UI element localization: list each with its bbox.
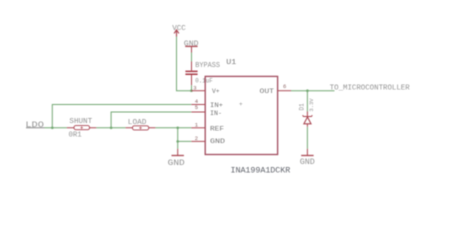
node V+ junction <box>190 89 193 92</box>
svg-text:LDO: LDO <box>25 121 44 130</box>
op-amp U1 INA199A1DCKR body <box>205 59 290 175</box>
wire OUT net <box>291 90 335 92</box>
ground middle <box>168 149 185 168</box>
svg-text:D1: D1 <box>299 103 306 111</box>
svg-text:3: 3 <box>193 84 196 91</box>
svg-text:GND: GND <box>168 158 185 168</box>
wire LDO to shunt <box>45 127 67 129</box>
ground right <box>300 149 315 167</box>
junction IN- <box>110 127 113 130</box>
wire IN+ net <box>52 105 191 128</box>
svg-text:IN+: IN+ <box>210 102 223 109</box>
wire diode to gnd <box>306 127 308 149</box>
junction gnd drop <box>176 127 179 130</box>
svg-text:5: 5 <box>195 104 198 111</box>
pin 5 IN- <box>191 104 222 117</box>
svg-text:3.3V: 3.3V <box>308 98 315 112</box>
node LDO label <box>25 121 44 130</box>
wire cap to V+ node <box>191 85 193 90</box>
diode D1 zener 3.3V <box>299 98 316 127</box>
ground top (flipped) <box>184 40 199 52</box>
resistor R LOAD <box>126 119 156 130</box>
svg-text:U1: U1 <box>226 59 237 67</box>
svg-text:2: 2 <box>195 135 198 142</box>
svg-text:6: 6 <box>283 83 286 90</box>
pin 2 GND <box>191 135 225 145</box>
wire gnd-to-cap <box>191 53 193 62</box>
svg-text:REF: REF <box>210 125 224 132</box>
wire branch to pin2 GND <box>178 140 192 142</box>
svg-text:0.1uF: 0.1uF <box>195 77 213 84</box>
capacitor C (BYPASS 0.1uF) <box>185 62 220 86</box>
svg-text:LOAD: LOAD <box>128 119 147 127</box>
pin 1 REF <box>191 122 224 133</box>
svg-text:INA199A1DCKR: INA199A1DCKR <box>231 165 291 175</box>
wire shunt to load <box>96 127 125 129</box>
supply VCC <box>172 25 186 37</box>
svg-text:SHUNT: SHUNT <box>69 118 92 126</box>
svg-text:GND: GND <box>300 158 315 167</box>
svg-text:TO_MICROCONTROLLER: TO_MICROCONTROLLER <box>330 85 411 93</box>
wire load to REF pin <box>155 127 191 129</box>
pin 4 IN+ <box>191 98 223 109</box>
svg-text:GND: GND <box>210 138 225 145</box>
pin 3 V+ <box>191 84 219 95</box>
svg-text:OUT: OUT <box>260 88 275 95</box>
svg-text:IN-: IN- <box>210 110 222 117</box>
resistor R SHUNT 0R1 <box>67 118 96 139</box>
svg-text:0R1: 0R1 <box>69 132 82 140</box>
junction IN+ <box>51 127 54 130</box>
svg-text:BYPASS: BYPASS <box>195 62 220 70</box>
wire gnd drop <box>177 128 179 149</box>
svg-text:VCC: VCC <box>172 25 186 33</box>
svg-text:V+: V+ <box>212 88 220 95</box>
wire IN- net <box>111 112 191 128</box>
svg-text:+: + <box>239 101 243 108</box>
wire diode drop <box>306 91 308 112</box>
wire VCC vertical to V+ <box>177 37 192 91</box>
pin 6 OUT <box>260 83 292 95</box>
